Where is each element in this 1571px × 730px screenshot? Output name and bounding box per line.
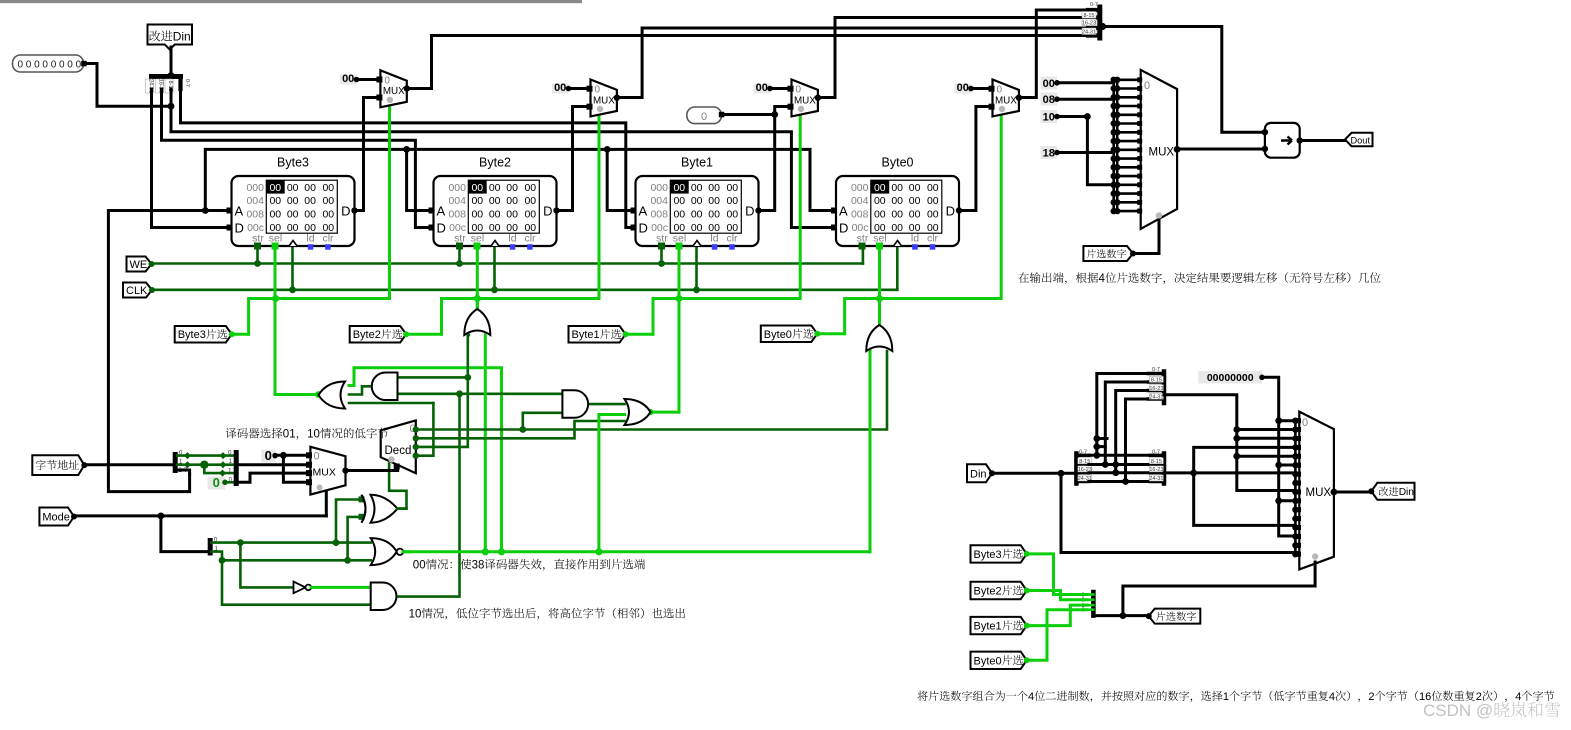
svg-text:004: 004 — [448, 195, 466, 207]
svg-text:D: D — [437, 221, 446, 236]
svg-text:0: 0 — [701, 111, 707, 123]
svg-text:38: 38 — [472, 560, 485, 572]
svg-text:8-15: 8-15 — [1151, 459, 1162, 465]
svg-text:D: D — [839, 221, 848, 236]
svg-text:00: 00 — [726, 195, 738, 207]
svg-text:MUX: MUX — [313, 467, 336, 479]
svg-text:00: 00 — [322, 182, 334, 194]
svg-text:0: 0 — [34, 60, 40, 71]
svg-text:A: A — [639, 204, 648, 219]
svg-text:00: 00 — [874, 182, 886, 194]
svg-text:10: 10 — [409, 609, 422, 621]
svg-text:00: 00 — [708, 209, 720, 221]
svg-text:00: 00 — [909, 182, 921, 194]
svg-text:MUX: MUX — [593, 95, 615, 106]
svg-text:Dout: Dout — [1351, 136, 1371, 146]
svg-text:00: 00 — [506, 195, 518, 207]
svg-text:00000000: 00000000 — [1207, 372, 1254, 384]
svg-text:0: 0 — [384, 76, 390, 87]
svg-text:0: 0 — [51, 60, 57, 71]
svg-text:008: 008 — [448, 209, 466, 221]
svg-text:00: 00 — [927, 195, 939, 207]
svg-text:10: 10 — [307, 429, 320, 441]
svg-text:ld: ld — [306, 233, 314, 245]
svg-text:00: 00 — [726, 209, 738, 221]
svg-text:0-7: 0-7 — [184, 79, 190, 87]
svg-text:008: 008 — [246, 209, 264, 221]
svg-text:MUX: MUX — [794, 95, 816, 106]
svg-text:0: 0 — [213, 475, 220, 490]
svg-text:00: 00 — [471, 209, 483, 221]
svg-text:Decd: Decd — [385, 445, 412, 457]
svg-text:Din: Din — [970, 468, 987, 480]
svg-text:00: 00 — [304, 209, 316, 221]
svg-text:4: 4 — [1515, 691, 1521, 703]
svg-text:2: 2 — [1368, 691, 1374, 703]
svg-text:Byte1: Byte1 — [681, 156, 713, 170]
svg-text:00: 00 — [287, 195, 299, 207]
svg-text:MUX: MUX — [995, 95, 1017, 106]
svg-text:00: 00 — [909, 209, 921, 221]
svg-text:00: 00 — [708, 195, 720, 207]
svg-text:00: 00 — [489, 209, 501, 221]
svg-text:Byte1: Byte1 — [974, 621, 1002, 633]
svg-text:Byte1: Byte1 — [572, 329, 600, 341]
svg-text:0: 0 — [997, 85, 1003, 96]
svg-text:000: 000 — [448, 182, 466, 194]
svg-text:000: 000 — [650, 182, 668, 194]
svg-text:Byte2: Byte2 — [353, 329, 381, 341]
svg-text:Din: Din — [173, 30, 191, 44]
svg-text:24-31: 24-31 — [1149, 476, 1163, 482]
svg-text:0: 0 — [1144, 80, 1150, 92]
svg-text:00: 00 — [269, 182, 281, 194]
svg-text:00: 00 — [287, 182, 299, 194]
svg-text:00: 00 — [673, 182, 685, 194]
svg-text:00: 00 — [524, 209, 536, 221]
svg-text:00: 00 — [489, 222, 501, 234]
svg-text:00: 00 — [287, 209, 299, 221]
svg-text:01: 01 — [283, 429, 296, 441]
svg-text:D: D — [745, 204, 754, 219]
svg-text:00: 00 — [927, 209, 939, 221]
svg-text:004: 004 — [851, 195, 869, 207]
svg-text:00: 00 — [691, 182, 703, 194]
svg-text:MUX: MUX — [383, 86, 405, 97]
svg-text:00: 00 — [691, 209, 703, 221]
svg-text:00: 00 — [322, 195, 334, 207]
svg-text:000: 000 — [246, 182, 264, 194]
svg-text:0-7: 0-7 — [1079, 450, 1087, 456]
svg-text:Byte0: Byte0 — [882, 156, 914, 170]
svg-text:4: 4 — [1099, 273, 1106, 285]
svg-text:A: A — [235, 204, 244, 219]
svg-text:Byte3: Byte3 — [178, 329, 206, 341]
svg-text:00: 00 — [471, 195, 483, 207]
svg-text:008: 008 — [650, 209, 668, 221]
svg-text:clr: clr — [927, 233, 939, 245]
svg-text:00: 00 — [891, 209, 903, 221]
svg-text:10: 10 — [1043, 112, 1055, 124]
svg-text:00: 00 — [874, 209, 886, 221]
svg-text:16-23: 16-23 — [1149, 467, 1163, 473]
svg-text:00: 00 — [269, 195, 281, 207]
svg-text:0: 0 — [42, 60, 48, 71]
svg-text:08: 08 — [1043, 94, 1055, 106]
svg-text:0-7: 0-7 — [1090, 2, 1098, 8]
svg-text:CSDN @: CSDN @ — [1423, 701, 1493, 720]
svg-text:0: 0 — [595, 85, 601, 96]
svg-text:Byte2: Byte2 — [479, 156, 511, 170]
svg-text:clr: clr — [524, 233, 536, 245]
svg-text:0-7: 0-7 — [1152, 367, 1160, 373]
svg-text:16-23: 16-23 — [1082, 21, 1096, 27]
svg-text:00: 00 — [756, 82, 768, 94]
svg-text:00: 00 — [691, 195, 703, 207]
svg-text:Byte3: Byte3 — [277, 156, 309, 170]
svg-text:Byte2: Byte2 — [974, 586, 1002, 598]
svg-text:4: 4 — [1028, 691, 1034, 703]
svg-text:00: 00 — [927, 182, 939, 194]
svg-text:00: 00 — [691, 222, 703, 234]
svg-text:0: 0 — [796, 85, 802, 96]
svg-text:00: 00 — [304, 195, 316, 207]
svg-text:clr: clr — [726, 233, 738, 245]
svg-text:00: 00 — [726, 182, 738, 194]
svg-text:D: D — [946, 204, 955, 219]
svg-text:ld: ld — [710, 233, 718, 245]
svg-text:00: 00 — [673, 195, 685, 207]
svg-text:0: 0 — [265, 448, 272, 463]
svg-text:4: 4 — [1329, 691, 1335, 703]
svg-text:D: D — [543, 204, 552, 219]
svg-text:D: D — [639, 221, 648, 236]
svg-text:Byte0: Byte0 — [764, 329, 792, 341]
svg-text:0: 0 — [67, 60, 73, 71]
svg-text:24-31: 24-31 — [1149, 394, 1163, 400]
svg-text:Mode: Mode — [42, 512, 70, 524]
svg-text:D: D — [235, 221, 244, 236]
svg-text:16-23: 16-23 — [1149, 386, 1163, 392]
svg-text:00: 00 — [957, 82, 969, 94]
svg-text:0: 0 — [26, 60, 32, 71]
svg-text:CLK: CLK — [126, 285, 148, 297]
svg-text:Din: Din — [1399, 487, 1414, 498]
svg-text:18: 18 — [1043, 148, 1055, 160]
svg-text:ld: ld — [911, 233, 919, 245]
svg-text:A: A — [839, 204, 848, 219]
svg-text:00: 00 — [909, 195, 921, 207]
svg-text:008: 008 — [851, 209, 869, 221]
svg-text:00: 00 — [1043, 78, 1055, 90]
svg-text:00: 00 — [891, 222, 903, 234]
svg-text:0: 0 — [59, 60, 65, 71]
svg-text:24-31: 24-31 — [1082, 30, 1096, 36]
svg-text:004: 004 — [650, 195, 668, 207]
svg-text:8-15: 8-15 — [1083, 13, 1094, 19]
svg-text:1: 1 — [1223, 691, 1229, 703]
svg-text:MUX: MUX — [1149, 147, 1175, 159]
svg-text:WE: WE — [130, 259, 148, 271]
svg-text:0: 0 — [18, 60, 24, 71]
svg-text:00: 00 — [413, 560, 426, 572]
svg-text:0-7: 0-7 — [1152, 450, 1160, 456]
svg-text:00: 00 — [287, 222, 299, 234]
svg-text:00: 00 — [891, 182, 903, 194]
svg-text:00: 00 — [506, 182, 518, 194]
svg-text:D: D — [341, 204, 350, 219]
svg-text:00: 00 — [269, 209, 281, 221]
svg-text:Byte0: Byte0 — [974, 655, 1002, 667]
svg-text:00: 00 — [524, 195, 536, 207]
svg-text:clr: clr — [322, 233, 334, 245]
svg-text:ld: ld — [508, 233, 516, 245]
svg-text:00: 00 — [471, 182, 483, 194]
svg-text:00: 00 — [342, 73, 354, 85]
svg-text:00: 00 — [489, 195, 501, 207]
svg-text:00: 00 — [891, 195, 903, 207]
svg-text:00: 00 — [673, 209, 685, 221]
svg-text:00: 00 — [304, 182, 316, 194]
svg-text:A: A — [437, 204, 446, 219]
svg-text:0: 0 — [1302, 417, 1308, 429]
svg-text:004: 004 — [246, 195, 264, 207]
svg-text:00: 00 — [708, 182, 720, 194]
svg-text:00: 00 — [874, 195, 886, 207]
svg-text:00: 00 — [554, 82, 566, 94]
svg-text:Byte3: Byte3 — [974, 549, 1002, 561]
svg-text:MUX: MUX — [1306, 487, 1332, 499]
svg-text:8-15: 8-15 — [1151, 378, 1162, 384]
svg-text:00: 00 — [524, 182, 536, 194]
svg-text:00: 00 — [489, 182, 501, 194]
svg-text:000: 000 — [851, 182, 869, 194]
svg-text:0: 0 — [314, 451, 320, 463]
svg-text:00: 00 — [506, 209, 518, 221]
svg-text:0: 0 — [76, 60, 82, 71]
svg-text:00: 00 — [322, 209, 334, 221]
